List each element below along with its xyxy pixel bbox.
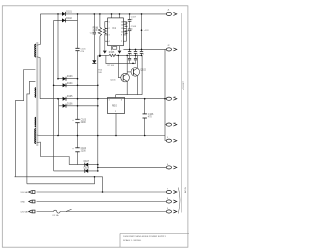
- wire Q2 base link: [127, 71, 131, 73]
- wire IC bottom pin 10: [119, 46, 121, 51]
- wire into regulator top: [115, 95, 117, 98]
- wire cap stub b: [135, 55, 137, 58]
- svg-text:AC IN: AC IN: [184, 187, 187, 193]
- wire top rail +V node: [40, 13, 166, 15]
- wire C8 branch mid: [129, 21, 131, 29]
- connector J2: [166, 48, 177, 51]
- svg-text:5: 5: [167, 137, 169, 139]
- wire decoupling cap 3 lower lead: [141, 53, 143, 55]
- junction at 58,135.5: [57, 135, 59, 137]
- junction at 77.5,135.5: [77, 135, 79, 137]
- wire filter bus x77.5 middle: [77, 51, 79, 120]
- bracket for AC output group: [178, 188, 180, 214]
- capacitor C3: [75, 119, 79, 122]
- junction at 97.8,167.4: [97, 167, 99, 169]
- wire shield run B: [27, 177, 95, 184]
- wire J5 feed: [165, 140, 166, 142]
- fuse F1 on AC row 3: [54, 210, 61, 213]
- resistor R3 below IC: [113, 47, 117, 50]
- wire C8 branch lower: [129, 31, 131, 50]
- resistor R1: [98, 27, 101, 36]
- svg-text:7: 7: [121, 41, 122, 43]
- junction at 53.6,85.3: [53, 85, 55, 87]
- svg-text:SCALE 1 : MODEL: SCALE 1 : MODEL: [123, 239, 142, 242]
- svg-text:D101: D101: [66, 11, 72, 13]
- junction dot base drive: [132, 63, 134, 65]
- transformer T1: [35, 42, 41, 146]
- svg-text:C103: C103: [81, 119, 87, 121]
- wire IC right pin 11 stub: [123, 31, 126, 33]
- wire +12V branch: [141, 14, 143, 50]
- svg-text:F1 5A: F1 5A: [53, 214, 59, 217]
- wire cap stub a: [129, 55, 131, 58]
- wire Q2 emitter: [136, 76, 138, 95]
- op-amp U1 PWM controller box: [108, 18, 124, 46]
- wire main vertical x97.8: [97, 55, 99, 170]
- junction at 97.8,98.7: [97, 98, 99, 100]
- connector J5: [166, 139, 177, 142]
- capacitor C6: [143, 114, 147, 118]
- capacitor stub a plates: [128, 58, 131, 60]
- junction at 94.5,176.8: [94, 176, 96, 178]
- wire AC row 1: [37, 191, 167, 193]
- svg-text:2200: 2200: [81, 151, 87, 153]
- wire R1 top lead: [99, 14, 101, 28]
- diode D6: [63, 104, 66, 108]
- wire shield run A: [15, 177, 103, 192]
- wire R1 bottom lead: [99, 36, 101, 55]
- connector J8: [166, 200, 177, 203]
- wire IC right pin 16 stub: [123, 21, 126, 23]
- wire negative output to J6: [98, 166, 166, 168]
- diode D2: [62, 18, 65, 22]
- svg-text:J2: J2: [167, 45, 170, 47]
- wire driver rail right segment: [116, 54, 142, 56]
- wire primary lead 2 route: [27, 81, 36, 183]
- wire IC right pin 9 stub: [123, 34, 126, 36]
- wire IC left pin bus lower: [104, 34, 106, 41]
- wire IC left pin bus: [104, 22, 106, 28]
- wire filter bus x77.5 lower: [77, 123, 79, 148]
- junction at 102.5,192: [102, 191, 104, 193]
- wire cap stub b lower: [135, 60, 137, 63]
- junction at 111.5,13.9: [111, 13, 113, 15]
- junction at 141.5,55.4: [141, 55, 143, 57]
- border frame (decorative): [2, 6, 188, 247]
- wire D3 anode line: [58, 78, 78, 80]
- junction at 77.5,105.8: [77, 105, 79, 107]
- junction at 58,98.7: [57, 98, 59, 100]
- svg-text:+5V RET: +5V RET: [183, 80, 185, 90]
- junction at 129.6,13.9: [129, 13, 131, 15]
- wire feedback branch x94.3 upper: [93, 14, 95, 32]
- resistor R5: [109, 54, 116, 56]
- wire vertical bus x58 lower: [58, 99, 60, 136]
- U2 pin marks: [109, 100, 122, 113]
- capacitor C2 on feedback branch: [93, 32, 96, 34]
- wire decoupling cap 1 leads: [129, 49, 131, 51]
- svg-text:D104: D104: [67, 83, 73, 85]
- wire 12V rail to J2: [123, 48, 166, 50]
- junction at 129.6,49.4: [129, 49, 131, 51]
- junction at 97.8,105.8: [97, 105, 99, 107]
- wire Q1 emitter: [126, 81, 128, 94]
- transistor Q2: [131, 68, 140, 77]
- svg-text:D108: D108: [84, 168, 90, 170]
- wire C8 branch upper: [129, 14, 131, 20]
- svg-text:470: 470: [148, 117, 153, 119]
- ground symbol under IC pin 10: [118, 51, 122, 54]
- junction at 135.5,49.4: [135, 49, 137, 51]
- svg-text:120 VAC: 120 VAC: [20, 191, 29, 194]
- wire winding return jog: [41, 142, 70, 165]
- junction at 165,98.7: [164, 98, 166, 100]
- wire AC row 3 left: [37, 211, 54, 213]
- wire C6 lower lead: [144, 118, 146, 136]
- wire vertical bus x58 upper: [57, 14, 59, 79]
- wire IC right vertical link: [126, 22, 128, 42]
- connector P1 input: [29, 191, 35, 194]
- svg-text:D106: D106: [67, 103, 73, 105]
- svg-text:120 VAC: 120 VAC: [20, 211, 29, 214]
- svg-text:+: +: [72, 119, 74, 122]
- junction at 135.5,55.4: [135, 55, 137, 57]
- wire transformer top terminal to top rail: [39, 14, 41, 45]
- junction at 97.8,164.6: [97, 164, 99, 166]
- svg-text:.1: .1: [142, 54, 145, 56]
- wire AC row 3 right: [60, 211, 166, 213]
- svg-text:16: 16: [121, 21, 123, 23]
- svg-text:2: 2: [109, 28, 110, 30]
- wire D8 line: [54, 170, 98, 172]
- svg-text:C104: C104: [81, 148, 87, 150]
- ground symbol left bus: [103, 51, 107, 54]
- connector J9: [166, 210, 177, 213]
- junction at 99.9,13.9: [99, 13, 101, 15]
- svg-text:10K: 10K: [98, 72, 102, 74]
- capacitor C13 on IC right bus: [125, 31, 128, 33]
- svg-text:14: 14: [121, 24, 123, 26]
- connector J6: [166, 166, 177, 169]
- wire IC right pin 14 stub: [123, 24, 126, 26]
- wire Q1 collector: [126, 55, 128, 73]
- junction at 97.8,135.5: [97, 135, 99, 137]
- svg-text:9: 9: [121, 35, 122, 37]
- svg-text:1: 1: [109, 100, 110, 102]
- connector J7: [166, 190, 177, 193]
- junction at 141.5,30.2: [141, 29, 143, 31]
- svg-text:.1: .1: [131, 29, 134, 31]
- svg-text:4: 4: [109, 41, 110, 43]
- svg-text:+: +: [72, 147, 74, 150]
- wire right bus x165: [164, 49, 166, 140]
- capacitor stub b plates: [134, 58, 137, 60]
- svg-text:2: 2: [115, 111, 116, 113]
- wire IC bottom pin 8: [111, 46, 113, 51]
- transformer T1 winding segment bottom: [35, 129, 36, 144]
- diode D4: [63, 83, 66, 87]
- transformer T1 core line 2: [37, 42, 39, 146]
- transformer T1 top terminal link: [37, 44, 41, 47]
- diode D1: [62, 12, 65, 16]
- svg-text:IC1: IC1: [112, 27, 116, 30]
- junction at 58,13.9: [57, 13, 59, 15]
- switch S1 on AC row 3: [66, 209, 72, 211]
- connector J4: [166, 123, 177, 126]
- connector J3: [166, 97, 177, 100]
- wire mid rail to J3: [40, 98, 166, 100]
- transformer T1 mid terminal link: [37, 56, 41, 59]
- wire emitter return rail: [116, 94, 143, 96]
- decoupling capacitor C12 plates: [140, 52, 143, 54]
- svg-text:2.2K: 2.2K: [93, 30, 98, 32]
- wire Q2 collector: [136, 55, 138, 68]
- resistor R2 zigzag on IC left bus: [103, 28, 106, 34]
- junction at 144.7,98.7: [144, 98, 146, 100]
- svg-text:12: 12: [121, 28, 123, 30]
- decoupling capacitor C10 plates: [128, 52, 131, 54]
- wire IC top pin 13: [119, 14, 121, 18]
- junction at 118.3,55.4: [118, 55, 120, 57]
- wire second rectifier feed: [54, 19, 78, 21]
- transformer T1 bottom terminal link: [37, 141, 41, 144]
- junction at 127.2,55.4: [126, 55, 128, 57]
- wire transformer winding bottom to mid rail: [39, 58, 41, 99]
- wire decoupling cap 2 leads: [135, 49, 137, 51]
- wire decoupling cap 1 lower lead: [129, 53, 131, 55]
- junction at 77.5,78.7: [77, 78, 79, 80]
- svg-text:+12V: +12V: [144, 30, 150, 32]
- transistor Q1: [121, 73, 130, 82]
- connector J1 output: [166, 12, 177, 15]
- wire driver rail left segment: [100, 54, 109, 56]
- junction at 77.5,85.3: [77, 85, 79, 87]
- wire J4 stub: [165, 124, 167, 126]
- U1 pin ticks inside: [109, 21, 124, 43]
- svg-text:100W SWITCHING MODE POWER SUPP: 100W SWITCHING MODE POWER SUPPLY: [123, 236, 167, 238]
- capacitor C8 upper plates: [128, 20, 132, 22]
- junction at 77.5,98.7: [77, 98, 79, 100]
- wire IC top pin 15: [111, 14, 113, 18]
- zener diode D9: [92, 60, 96, 63]
- diode D5: [63, 97, 66, 101]
- svg-text:1: 1: [109, 21, 110, 23]
- wire x142.1 branch: [141, 55, 143, 94]
- voltage regulator U2 box: [108, 98, 125, 114]
- svg-text:11: 11: [121, 32, 123, 34]
- wire filter bus x77.5 bottom: [77, 152, 79, 165]
- diode D8: [85, 169, 88, 173]
- wire D4 line: [54, 84, 98, 86]
- junction at 97.8,170.9: [97, 170, 99, 172]
- connector P2 input: [29, 200, 35, 203]
- junction at 141.5,13.9: [141, 13, 143, 15]
- junction at 144.7,135.5: [144, 135, 146, 137]
- wire filter bus x77.5 upper: [77, 14, 79, 48]
- wire IC left pin 4 stub: [105, 40, 108, 42]
- wire decoupling cap 3 leads: [141, 49, 143, 51]
- svg-text:Q102: Q102: [140, 70, 146, 72]
- wire IC left pin 2 stub: [105, 27, 108, 29]
- wire center tap rail: [41, 135, 166, 137]
- svg-text:D107: D107: [84, 161, 90, 163]
- capacitor C4: [75, 148, 79, 152]
- svg-text:R101: R101: [93, 27, 99, 29]
- junction at 99.8,55.8: [99, 55, 101, 57]
- wire feedback branch x94.3 lower: [93, 34, 95, 60]
- wire IC left pin 1 stub: [105, 21, 108, 23]
- transformer T1 winding segment top: [35, 44, 36, 57]
- wire regulator output lead: [115, 114, 117, 136]
- capacitor C7 on IC right bus: [125, 23, 128, 26]
- wire long vertical bus from H2 down to D8 line: [53, 20, 55, 171]
- right margin bus wire: [181, 13, 183, 213]
- svg-text:3: 3: [121, 100, 122, 102]
- wire D6 line: [59, 105, 98, 107]
- svg-text:470: 470: [80, 51, 84, 53]
- connector P3 input: [29, 210, 35, 213]
- wire IC right pin 7 stub: [123, 40, 126, 42]
- title block: [120, 234, 189, 248]
- capacitor C1: [75, 48, 79, 50]
- svg-text:D103: D103: [67, 76, 73, 78]
- wire IC left pin 3 stub: [105, 34, 108, 36]
- wire AC row 2: [37, 201, 167, 203]
- svg-text:J1: J1: [167, 10, 170, 12]
- svg-text:R7 100: R7 100: [108, 65, 115, 67]
- svg-text:3: 3: [109, 35, 110, 37]
- junction at 141.5,49.4: [141, 49, 143, 51]
- wire D7 line: [69, 164, 98, 166]
- svg-text:2200: 2200: [81, 122, 87, 124]
- decoupling capacitor C11 plates: [134, 52, 137, 54]
- svg-text:C106: C106: [148, 114, 154, 116]
- junction at 97.8,85.3: [97, 85, 99, 87]
- capacitor C9 lower plates: [128, 29, 132, 31]
- wire decoupling cap 2 lower lead: [135, 53, 137, 55]
- junction at 119.5,13.9: [119, 13, 121, 15]
- wire cap stub a lower: [129, 60, 131, 63]
- transformer T1 tap link: [37, 134, 41, 137]
- svg-text:GND: GND: [20, 202, 25, 204]
- wire primary lead 1 route: [15, 70, 35, 177]
- svg-text:.1: .1: [131, 19, 134, 21]
- wire C6 upper lead: [144, 99, 146, 114]
- svg-text:R105: R105: [109, 52, 115, 54]
- transformer T1 winding segment mid: [34, 88, 37, 98]
- diode D3: [63, 77, 66, 81]
- svg-text:D102: D102: [66, 18, 72, 20]
- svg-text:REG: REG: [112, 106, 117, 108]
- diode D7: [85, 163, 88, 167]
- junction at 116,135.5: [115, 135, 117, 137]
- wire base drive sub-line: [106, 55, 136, 63]
- svg-text:Q101: Q101: [110, 80, 116, 82]
- transformer T1 winding segment lower mid: [34, 117, 37, 127]
- junction at 77.5,13.9: [77, 13, 79, 15]
- junction at 94.3,13.9: [94, 13, 96, 15]
- svg-text:D105: D105: [67, 96, 73, 98]
- wire left bus to ground: [104, 41, 106, 50]
- wire Q1 base feed: [118, 55, 121, 77]
- junction at 58,78.7: [57, 78, 59, 80]
- transformer T1 core line 1: [36, 42, 38, 146]
- wire IC right pin 12 stub: [123, 27, 126, 29]
